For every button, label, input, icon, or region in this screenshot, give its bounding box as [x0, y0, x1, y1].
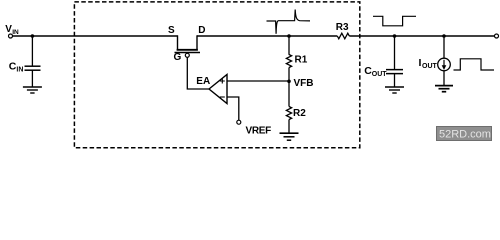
svg-text:OUT: OUT	[372, 71, 388, 78]
wire rail to R1	[288, 36, 290, 55]
gate bubble of Q1	[185, 53, 189, 57]
node junction CIN tap	[31, 34, 35, 38]
wire COUT branch upper	[394, 36, 396, 69]
svg-text:D: D	[198, 25, 205, 36]
node VREF terminal	[237, 120, 241, 124]
svg-text:OUT: OUT	[422, 63, 438, 70]
wire VFB to R2	[288, 82, 290, 107]
node VFB junction	[287, 80, 291, 84]
node junction IOUT tap	[442, 34, 446, 38]
svg-text:S: S	[168, 25, 175, 36]
waveform load current step	[454, 59, 495, 70]
node junction divider tap on rail	[287, 34, 291, 38]
transistor Q1 PMOS pass element	[175, 35, 201, 52]
capacitor CIN label	[9, 61, 24, 74]
wire main rail from VIN to transistor source	[13, 35, 178, 37]
wire R2 to ground	[288, 120, 290, 134]
resistor R1	[286, 55, 291, 68]
svg-text:EA: EA	[196, 76, 210, 87]
svg-text:R2: R2	[293, 108, 306, 119]
svg-text:R1: R1	[295, 55, 308, 66]
waveform Vout droop notch	[373, 16, 416, 26]
resistor R3	[337, 33, 349, 39]
waveform Vout transient dip and spike	[267, 10, 311, 34]
wire IOUT branch upper	[443, 36, 445, 58]
svg-text:G: G	[174, 52, 182, 63]
svg-text:IN: IN	[16, 67, 23, 74]
node VIN label	[5, 24, 19, 36]
capacitor COUT	[386, 70, 403, 74]
wire CIN branch lower	[31, 71, 33, 87]
op-amp EA error amplifier	[209, 75, 227, 104]
svg-text:R3: R3	[336, 22, 349, 33]
wire IOUT branch lower	[443, 71, 445, 86]
wire main rail from R3 to output terminal	[349, 35, 494, 37]
dashed IC boundary box	[74, 2, 359, 148]
wire main rail from transistor drain to R3	[197, 35, 337, 37]
wire from + input to VFB node	[227, 80, 289, 82]
capacitor CIN	[25, 66, 41, 70]
capacitor COUT label	[364, 65, 387, 78]
ground below CIN	[23, 87, 42, 93]
svg-text:IN: IN	[12, 29, 19, 36]
current source IOUT	[438, 58, 451, 71]
node junction COUT tap	[393, 34, 397, 38]
svg-text:V: V	[5, 24, 12, 35]
svg-text:52RD.com: 52RD.com	[439, 129, 491, 141]
current source IOUT label	[419, 57, 438, 70]
wire from - input down to VREF	[227, 97, 239, 120]
ground below COUT	[385, 87, 404, 93]
wire CIN branch upper	[31, 36, 33, 66]
resistor R2	[286, 107, 291, 120]
node output terminal	[495, 34, 499, 38]
wire COUT branch lower	[394, 74, 396, 87]
wire gate down to EA output	[187, 57, 209, 89]
ground below IOUT	[435, 86, 453, 92]
svg-text:VREF: VREF	[246, 126, 272, 137]
ground below R2	[280, 133, 299, 140]
node VIN terminal	[9, 34, 13, 38]
svg-text:VFB: VFB	[294, 78, 314, 89]
watermark 52RD.com	[437, 127, 492, 141]
wire R1 to VFB	[288, 68, 290, 82]
